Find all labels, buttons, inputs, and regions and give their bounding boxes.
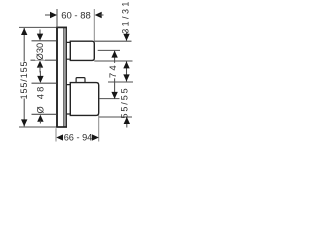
svg-text:Ø 48: Ø 48 [36, 85, 46, 114]
svg-text:Ø30: Ø30 [35, 43, 45, 61]
svg-text:31/31: 31/31 [121, 0, 131, 34]
svg-text:74: 74 [108, 63, 119, 78]
svg-text:60 - 88: 60 - 88 [61, 10, 91, 21]
svg-text:55/55: 55/55 [120, 86, 130, 118]
svg-text:66 - 94: 66 - 94 [64, 133, 93, 143]
svg-text:155/155: 155/155 [19, 61, 29, 100]
